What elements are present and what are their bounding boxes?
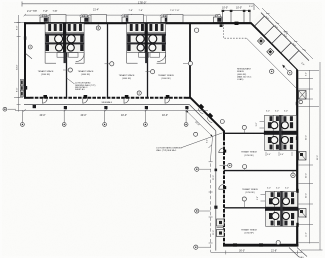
south wing note <box>156 147 182 152</box>
diagonal door arcs <box>198 108 212 122</box>
end wall W4 <box>189 23 191 98</box>
column C1 on rear wall <box>40 17 49 23</box>
column C4 on rear wall <box>161 17 170 23</box>
inner corner diagonal wall <box>190 97 225 131</box>
south wing tenant label 7 <box>241 228 257 234</box>
restaurant bubbles <box>270 69 274 73</box>
restroom cluster C <box>264 115 297 150</box>
rear service bump-out at restaurant <box>222 7 251 23</box>
grid bubble G5 <box>184 123 188 127</box>
northeast diagonal wall <box>251 23 298 70</box>
storefront dimension line <box>15 109 208 112</box>
canopy column P1 <box>64 106 67 109</box>
interior wall south wing Y3 <box>224 207 297 209</box>
dark mark on west wall <box>24 36 26 39</box>
ne outer dimension diagonal <box>262 8 313 59</box>
grid bubble west <box>3 107 7 111</box>
ne compartment dims <box>265 16 296 47</box>
west dimension line <box>14 15 24 112</box>
dim slash ticks second line <box>24 14 220 16</box>
cluster B lower boxes <box>139 53 160 58</box>
restroom enclosure below cluster B <box>127 53 166 64</box>
east utility box 1 <box>299 91 306 100</box>
inner corner dimension diagonal <box>186 110 213 136</box>
storefront (south) wall of north wing <box>24 97 30 99</box>
entry vestibule south wing <box>217 219 224 237</box>
grid bubble G4 <box>144 123 148 127</box>
room bubble G <box>137 91 141 95</box>
small door mark below rear wall <box>220 24 223 27</box>
exterior left (west) wall <box>24 22 26 98</box>
diagonal wall door marks <box>199 104 204 109</box>
west wall door <box>24 86 27 90</box>
grid bubble G1 <box>21 123 25 127</box>
canopy column P0 <box>33 105 36 108</box>
sidewalk diagonal at inner corner <box>190 105 216 131</box>
column cap plates <box>42 15 220 17</box>
south wing interior wall bubbles <box>242 125 246 129</box>
grid bubble letters <box>22 124 187 125</box>
grid bubble row leaders <box>22 110 186 122</box>
east wall of south wing <box>296 69 298 246</box>
tenant label 3 <box>119 74 135 80</box>
bubble on east wall <box>299 100 303 104</box>
west wall door arcs south wing <box>219 148 224 189</box>
top dimension line overall <box>22 3 254 5</box>
demising wall note <box>75 82 96 92</box>
northeast canopy strip <box>252 13 309 71</box>
building interior <box>25 23 298 245</box>
southeast leader lines <box>289 248 299 258</box>
interior wall south wing Y2 <box>224 170 297 172</box>
east wall door mark room1 <box>296 136 298 140</box>
restroom door arcs <box>76 53 166 62</box>
storefront door swing arcs <box>42 98 169 103</box>
bubble near east wall room2 <box>291 173 295 177</box>
canopy compartment ticks <box>254 16 298 60</box>
tenant label 4 <box>158 74 174 80</box>
exterior rear (top) wall <box>24 22 252 24</box>
tenant label 2 <box>78 70 94 76</box>
room bubble south wing 1 <box>228 163 232 167</box>
restroom cluster A <box>45 24 84 53</box>
paper texture <box>0 0 1 1</box>
east wall door mark upper <box>296 102 298 105</box>
demising wall W3 <box>147 23 149 98</box>
rear wall bubble mid <box>96 26 100 30</box>
canopy column P3 <box>145 106 148 109</box>
south wall door blobs <box>233 243 237 246</box>
canopy column P4 <box>185 106 188 109</box>
grid bubble G2 <box>62 123 66 127</box>
south dim line <box>211 250 323 254</box>
south wall of south wing <box>223 244 298 247</box>
interior wall south wing Y1 <box>224 132 297 134</box>
restroom enclosure below cluster A <box>45 53 84 64</box>
east utility box 2 <box>299 152 306 161</box>
restaurant interior partition diagonal <box>247 38 297 88</box>
demising wall W2 <box>107 23 109 98</box>
restroom cluster D <box>265 191 298 226</box>
restaurant label <box>237 67 252 81</box>
dim extension ticks to columns <box>44 15 165 17</box>
east wall door marks <box>296 189 298 193</box>
sidewalk edge along storefront <box>24 104 190 106</box>
west refuse enclosure <box>20 80 23 97</box>
diagonal columns <box>257 37 264 44</box>
cluster C/D side ticks <box>260 122 266 202</box>
demising wall W1 <box>66 23 68 98</box>
sidewalk edge along south wing <box>215 131 217 251</box>
restroom cluster B <box>127 24 166 53</box>
canopy column P2 <box>104 106 107 109</box>
corner bubbles <box>220 120 224 124</box>
storefront door blobs <box>43 95 47 98</box>
east dimension lines <box>298 62 320 250</box>
bottom wall bubble <box>276 241 280 245</box>
wall bubbles top wing <box>68 28 199 74</box>
south wing tenant label 6 <box>242 188 258 194</box>
grid bubble G3 <box>103 123 107 127</box>
rear stoop boxes <box>50 15 183 23</box>
column C3 on rear wall <box>122 17 131 23</box>
restroom width extension ticks <box>46 16 166 22</box>
rear door of restaurant <box>235 22 239 25</box>
cluster A lower boxes <box>57 53 78 58</box>
column C2 on rear wall <box>81 17 90 23</box>
south wing west dim line <box>209 158 213 252</box>
west grid bubbles south wing <box>195 167 199 171</box>
room bubble left <box>28 45 32 49</box>
restaurant dashed future wall <box>224 25 247 39</box>
tenant label 1 <box>38 70 54 76</box>
west wall of south wing <box>223 131 225 137</box>
south wing tenant label 5 <box>241 151 257 157</box>
secondary top dimension line <box>25 14 219 16</box>
east utility box 3 <box>299 209 306 218</box>
column C5 on rear wall <box>214 17 223 23</box>
wing sidewalk columns <box>214 206 217 209</box>
